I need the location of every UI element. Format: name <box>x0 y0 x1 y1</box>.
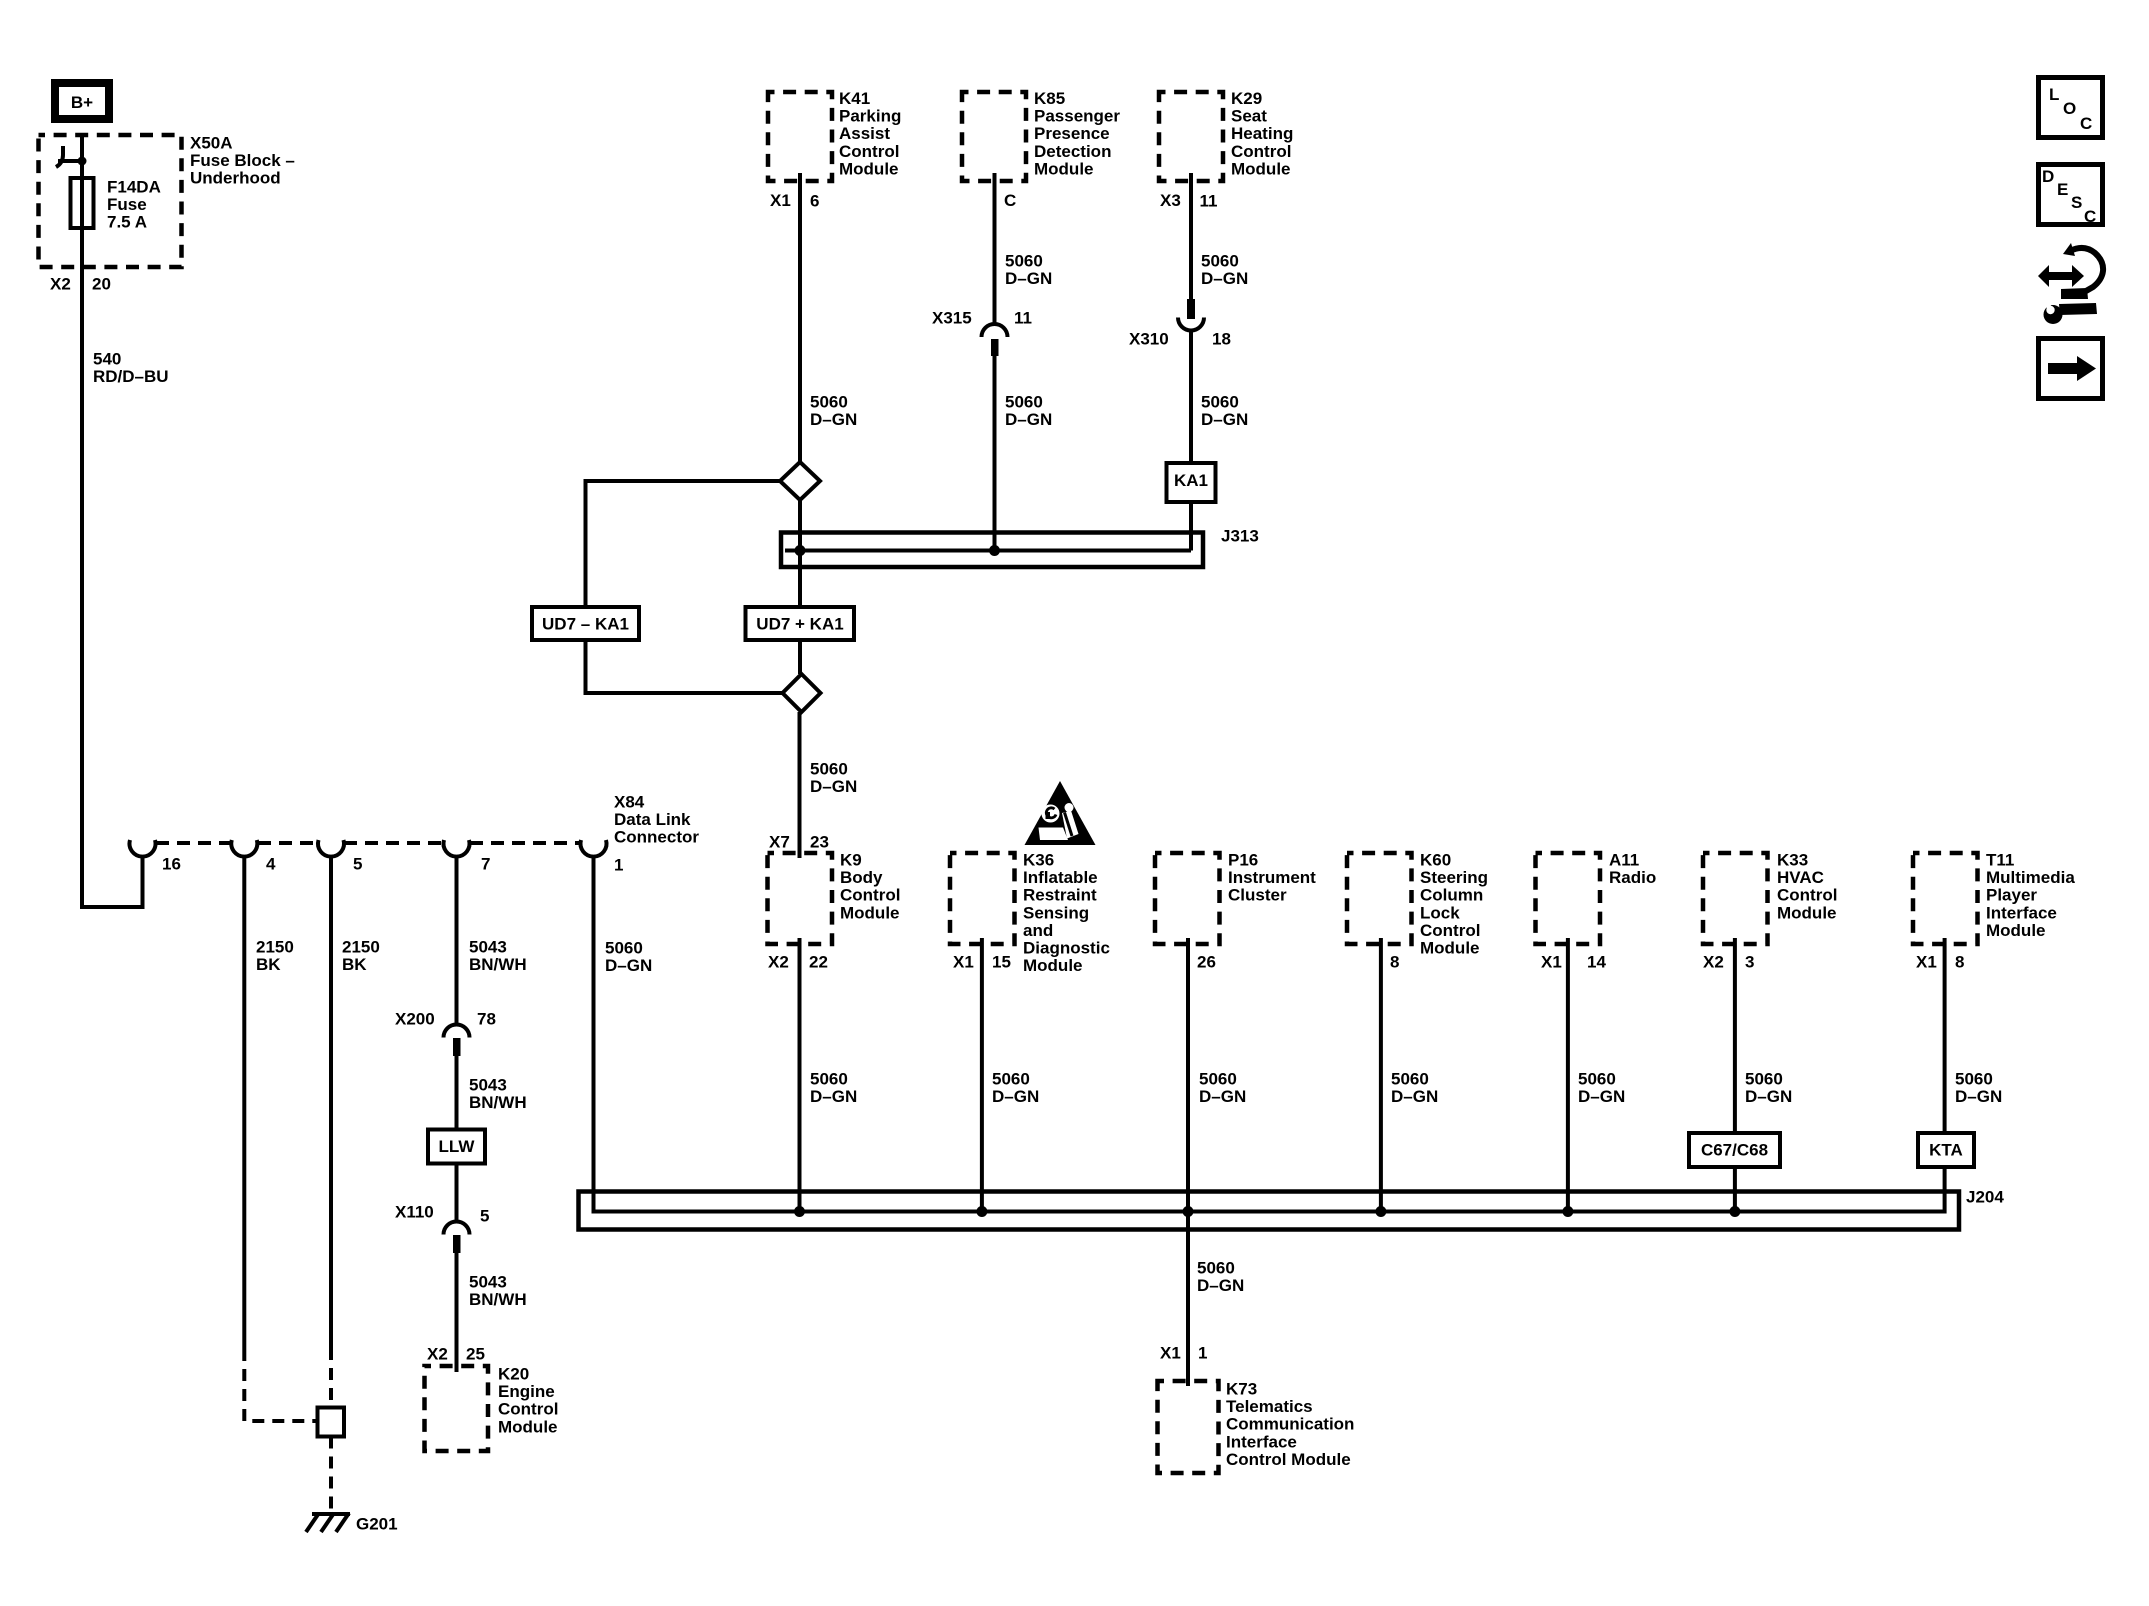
svg-text:Control: Control <box>840 886 900 905</box>
svg-text:5: 5 <box>480 1207 489 1226</box>
svg-text:D–GN: D–GN <box>1197 1276 1244 1295</box>
option box C67/C68 <box>1689 1133 1780 1167</box>
connector X200 <box>444 1025 470 1038</box>
svg-text:BK: BK <box>256 955 281 974</box>
svg-text:78: 78 <box>477 1010 496 1029</box>
wire B+ to DLC pin 16 (circuit 540 RD/D-BU) <box>82 134 143 907</box>
svg-text:Control: Control <box>839 142 899 161</box>
svg-text:RD/D–BU: RD/D–BU <box>93 367 169 386</box>
module K85 passenger presence dashed box <box>962 92 1026 181</box>
svg-text:5043: 5043 <box>469 938 507 957</box>
svg-text:20: 20 <box>92 275 111 294</box>
svg-text:D–GN: D–GN <box>1955 1087 2002 1106</box>
svg-text:X2: X2 <box>768 953 789 972</box>
svg-text:D–GN: D–GN <box>810 1087 857 1106</box>
svg-text:5043: 5043 <box>469 1076 507 1095</box>
svg-text:5060: 5060 <box>1199 1070 1237 1089</box>
svg-text:L: L <box>2049 85 2059 104</box>
svg-text:11: 11 <box>1014 309 1032 328</box>
X84 data link connector dashed line <box>156 841 231 845</box>
wire diamond to UD7-KA1 <box>586 481 781 607</box>
diamond splice 2 <box>783 674 821 712</box>
svg-text:UD7 – KA1: UD7 – KA1 <box>542 615 629 634</box>
svg-text:BN/WH: BN/WH <box>469 1290 527 1309</box>
svg-text:Control: Control <box>1231 142 1291 161</box>
svg-text:Module: Module <box>840 903 900 922</box>
svg-text:Control: Control <box>498 1400 558 1419</box>
splice pack LLW <box>428 1130 485 1164</box>
svg-text:X1: X1 <box>1160 1344 1181 1363</box>
svg-text:5060: 5060 <box>1578 1070 1616 1089</box>
airbag warning triangle <box>1025 781 1096 845</box>
svg-text:Heating: Heating <box>1231 124 1293 143</box>
svg-text:Underhood: Underhood <box>190 169 281 188</box>
svg-text:X7: X7 <box>769 833 790 852</box>
svg-text:22: 22 <box>809 953 828 972</box>
svg-text:Interface: Interface <box>1986 903 2057 922</box>
svg-text:Column: Column <box>1420 886 1483 905</box>
svg-text:K73: K73 <box>1226 1380 1257 1399</box>
svg-text:8: 8 <box>1390 953 1399 972</box>
svg-text:J313: J313 <box>1221 527 1259 546</box>
svg-text:5060: 5060 <box>1201 393 1239 412</box>
svg-text:7: 7 <box>481 855 490 874</box>
svg-text:D–GN: D–GN <box>1391 1087 1438 1106</box>
svg-text:Body: Body <box>840 868 883 887</box>
svg-text:Diagnostic: Diagnostic <box>1023 939 1110 958</box>
svg-text:D–GN: D–GN <box>810 777 857 796</box>
svg-text:D–GN: D–GN <box>1005 410 1052 429</box>
svg-text:K29: K29 <box>1231 89 1262 108</box>
svg-text:5060: 5060 <box>1005 393 1043 412</box>
module K9 body control dashed box <box>768 853 833 944</box>
svg-text:D–GN: D–GN <box>1745 1087 1792 1106</box>
module A11 radio dashed box <box>1536 853 1601 944</box>
svg-text:Interface: Interface <box>1226 1432 1297 1451</box>
svg-text:Module: Module <box>1986 921 2046 940</box>
svg-text:540: 540 <box>93 350 121 369</box>
svg-text:K60: K60 <box>1420 851 1451 870</box>
svg-text:Fuse: Fuse <box>107 195 147 214</box>
svg-text:Module: Module <box>1034 159 1094 178</box>
svg-text:X1: X1 <box>1916 953 1937 972</box>
svg-text:X3: X3 <box>1160 191 1181 210</box>
svg-text:BN/WH: BN/WH <box>469 955 527 974</box>
svg-text:K20: K20 <box>498 1365 529 1384</box>
svg-text:X1: X1 <box>1541 953 1562 972</box>
svg-text:1: 1 <box>614 856 623 875</box>
svg-text:5060: 5060 <box>810 1070 848 1089</box>
svg-text:5060: 5060 <box>605 939 643 958</box>
svg-text:Multimedia: Multimedia <box>1986 868 2075 887</box>
svg-text:18: 18 <box>1212 330 1231 349</box>
svg-text:Telematics: Telematics <box>1226 1397 1313 1416</box>
junction dot fuse block tap <box>78 157 87 166</box>
svg-text:Data Link: Data Link <box>614 810 691 829</box>
svg-text:6: 6 <box>810 192 819 211</box>
svg-text:P16: P16 <box>1228 851 1258 870</box>
module K60 steering column lock dashed box <box>1347 853 1412 944</box>
svg-text:14: 14 <box>1587 953 1606 972</box>
fuse F14DA <box>71 178 94 228</box>
fuse block X50A dashed box <box>39 135 182 267</box>
svg-text:D–GN: D–GN <box>992 1087 1039 1106</box>
svg-text:D–GN: D–GN <box>1201 269 1248 288</box>
X84 pin cup arcs <box>130 840 156 857</box>
svg-text:X84: X84 <box>614 793 645 812</box>
splice bus J313 <box>781 533 1203 568</box>
svg-text:15: 15 <box>992 953 1011 972</box>
svg-text:X1: X1 <box>770 191 791 210</box>
svg-text:Module: Module <box>1231 159 1291 178</box>
svg-text:Control: Control <box>1420 921 1480 940</box>
svg-text:X50A: X50A <box>190 134 233 153</box>
svg-text:X315: X315 <box>932 309 972 328</box>
icon forward arrow box <box>2039 339 2103 399</box>
svg-text:Communication: Communication <box>1226 1415 1354 1434</box>
svg-text:and: and <box>1023 921 1053 940</box>
wire K85 module down (5060 D-GN) <box>993 173 997 325</box>
svg-text:X1: X1 <box>953 953 974 972</box>
wire DLC pin 1 into J204 bus and up to KTA (5060 D-GN) <box>594 856 1945 1212</box>
svg-text:5060: 5060 <box>810 760 848 779</box>
svg-text:D–GN: D–GN <box>1005 269 1052 288</box>
svg-text:C: C <box>2080 114 2092 133</box>
option box KTA <box>1918 1133 1974 1167</box>
module K73 telematics dashed box <box>1158 1381 1219 1473</box>
wire DLC pin 5 (2150 BK) <box>329 856 333 1348</box>
svg-text:5060: 5060 <box>1201 252 1239 271</box>
bottom row module wires to J204 <box>798 938 802 1212</box>
svg-text:Player: Player <box>1986 886 2037 905</box>
svg-text:C: C <box>2084 207 2096 226</box>
svg-text:2150: 2150 <box>342 938 380 957</box>
svg-text:Presence: Presence <box>1034 124 1110 143</box>
svg-text:B+: B+ <box>71 93 93 112</box>
svg-text:S: S <box>2071 193 2082 212</box>
option box UD7 + KA1 <box>746 607 855 640</box>
svg-text:C67/C68: C67/C68 <box>1701 1141 1768 1160</box>
option box KA1 <box>1167 463 1216 502</box>
icon LOC box <box>2039 78 2103 138</box>
svg-text:D–GN: D–GN <box>810 410 857 429</box>
svg-text:X200: X200 <box>395 1010 435 1029</box>
fuse block tap switch symbol <box>56 146 63 167</box>
module K20 engine control module dashed box <box>425 1366 489 1451</box>
svg-text:26: 26 <box>1197 953 1216 972</box>
module T11 multimedia dashed box <box>1913 853 1978 944</box>
svg-text:Instrument: Instrument <box>1228 868 1316 887</box>
module K41 parking assist dashed box <box>768 92 832 181</box>
module P16 instrument cluster dashed box <box>1155 853 1220 944</box>
module K36 SDM dashed box <box>950 853 1015 944</box>
svg-text:Steering: Steering <box>1420 868 1488 887</box>
svg-text:Assist: Assist <box>839 124 890 143</box>
svg-text:HVAC: HVAC <box>1777 868 1824 887</box>
svg-text:Module: Module <box>1420 939 1480 958</box>
wire UD7+KA1 down to diamond 2 <box>798 640 802 674</box>
svg-text:A11: A11 <box>1609 851 1639 870</box>
svg-text:2150: 2150 <box>256 938 294 957</box>
svg-text:3: 3 <box>1745 953 1754 972</box>
diamond splice 1 <box>780 462 820 500</box>
wire K41 module down through diamond to UD7+KA1 <box>798 173 802 462</box>
svg-text:UD7 + KA1: UD7 + KA1 <box>756 615 843 634</box>
wire diamond 2 down to K9 module <box>798 712 802 858</box>
svg-text:D–GN: D–GN <box>605 956 652 975</box>
svg-text:Engine: Engine <box>498 1382 555 1401</box>
svg-text:Radio: Radio <box>1609 868 1656 887</box>
svg-text:E: E <box>2057 180 2068 199</box>
svg-text:KA1: KA1 <box>1174 471 1208 490</box>
svg-text:25: 25 <box>466 1345 485 1364</box>
svg-text:J204: J204 <box>1966 1188 2004 1207</box>
svg-text:5060: 5060 <box>810 393 848 412</box>
svg-text:Fuse Block –: Fuse Block – <box>190 151 295 170</box>
svg-text:K36: K36 <box>1023 851 1054 870</box>
icon harness routing (double arrow + outline + wrench) <box>2038 265 2084 287</box>
svg-text:O: O <box>2063 99 2076 118</box>
B+ power symbol <box>55 83 109 119</box>
svg-text:Module: Module <box>1777 903 1837 922</box>
svg-text:Detection: Detection <box>1034 142 1111 161</box>
splice bus J204 <box>579 1192 1960 1230</box>
module K33 HVAC dashed box <box>1703 853 1768 944</box>
svg-text:8: 8 <box>1955 953 1964 972</box>
svg-text:D: D <box>2042 167 2054 186</box>
svg-text:5: 5 <box>353 855 362 874</box>
svg-text:Cluster: Cluster <box>1228 886 1287 905</box>
svg-text:C: C <box>1004 191 1016 210</box>
svg-text:Sensing: Sensing <box>1023 903 1089 922</box>
svg-text:BN/WH: BN/WH <box>469 1093 527 1112</box>
svg-text:X2: X2 <box>427 1345 448 1364</box>
svg-text:Parking: Parking <box>839 107 901 126</box>
connector X310 <box>1187 299 1195 319</box>
svg-text:G201: G201 <box>356 1515 398 1534</box>
svg-text:5060: 5060 <box>1391 1070 1429 1089</box>
svg-text:Control: Control <box>1777 886 1837 905</box>
svg-text:KTA: KTA <box>1929 1141 1963 1160</box>
svg-text:X2: X2 <box>50 275 71 294</box>
svg-text:5060: 5060 <box>1005 252 1043 271</box>
svg-text:5060: 5060 <box>1197 1259 1235 1278</box>
splice square <box>318 1408 345 1437</box>
wire DLC pin 7 (5043 BN/WH) <box>455 856 459 1026</box>
icon DESC box <box>2039 165 2103 225</box>
svg-text:T11: T11 <box>1986 851 2014 870</box>
svg-text:K9: K9 <box>840 851 862 870</box>
svg-text:Restraint: Restraint <box>1023 886 1097 905</box>
svg-text:F14DA: F14DA <box>107 178 161 197</box>
svg-text:K33: K33 <box>1777 851 1808 870</box>
svg-text:K85: K85 <box>1034 89 1065 108</box>
module K29 seat heating dashed box <box>1159 92 1223 181</box>
svg-text:D–GN: D–GN <box>1201 410 1248 429</box>
svg-text:LLW: LLW <box>439 1137 476 1156</box>
svg-text:Seat: Seat <box>1231 107 1267 126</box>
svg-text:23: 23 <box>810 833 829 852</box>
svg-text:5060: 5060 <box>1745 1070 1783 1089</box>
wire UD7-KA1 down to diamond 2 <box>586 640 783 693</box>
svg-text:K41: K41 <box>839 89 870 108</box>
connector X315 <box>982 324 1008 337</box>
svg-text:X310: X310 <box>1129 330 1169 349</box>
wire K29 module down (5060 D-GN) <box>1189 173 1193 299</box>
svg-text:5060: 5060 <box>992 1070 1030 1089</box>
svg-text:Module: Module <box>498 1417 558 1436</box>
svg-text:1: 1 <box>1198 1344 1207 1363</box>
svg-text:X110: X110 <box>395 1203 434 1222</box>
wire DLC pin 4 (2150 BK) <box>242 856 246 1349</box>
connector X110 <box>444 1222 470 1235</box>
svg-text:5060: 5060 <box>1955 1070 1993 1089</box>
svg-text:16: 16 <box>162 855 181 874</box>
ground G201 <box>312 1512 350 1516</box>
svg-text:Module: Module <box>839 159 899 178</box>
svg-text:Inflatable: Inflatable <box>1023 868 1098 887</box>
svg-text:X2: X2 <box>1703 953 1724 972</box>
svg-text:D–GN: D–GN <box>1578 1087 1625 1106</box>
svg-text:BK: BK <box>342 955 367 974</box>
option box UD7 - KA1 <box>532 607 639 640</box>
svg-text:4: 4 <box>266 855 276 874</box>
svg-text:D–GN: D–GN <box>1199 1087 1246 1106</box>
svg-text:7.5 A: 7.5 A <box>107 213 147 232</box>
svg-text:Module: Module <box>1023 956 1083 975</box>
svg-text:Lock: Lock <box>1420 903 1460 922</box>
svg-text:Passenger: Passenger <box>1034 107 1120 126</box>
svg-text:11: 11 <box>1200 192 1218 211</box>
svg-text:5043: 5043 <box>469 1273 507 1292</box>
svg-text:Control Module: Control Module <box>1226 1450 1351 1469</box>
svg-text:Connector: Connector <box>614 828 699 847</box>
